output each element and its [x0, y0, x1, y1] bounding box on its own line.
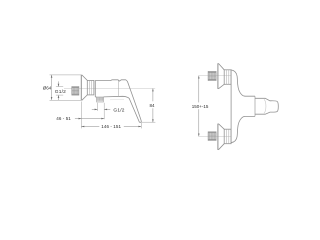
ext line handle tip down [140, 123, 142, 129]
ext line handle bottom right [140, 121, 156, 123]
svg-text:G1/2: G1/2 [113, 107, 124, 113]
ext line outlet left [97, 103, 99, 111]
top escutcheon cone [218, 63, 224, 88]
top wall thread (hatched) [208, 71, 216, 80]
ext ticks pipe thread [56, 86, 63, 88]
mixer body and lever handle outline [95, 80, 141, 123]
handle cylinder highlight arc [264, 99, 266, 113]
svg-text:G1/2: G1/2 [55, 89, 66, 95]
svg-text:84: 84 [150, 103, 156, 108]
top escutcheon face [217, 63, 219, 89]
dim 46-51 [75, 118, 104, 120]
escutcheon cone top [82, 75, 88, 81]
dim G1/2 outlet arrows [92, 108, 98, 110]
svg-text:150+-15: 150+-15 [192, 104, 209, 109]
bottom escutcheon face [217, 124, 219, 150]
body silhouette bottom S-curve [231, 116, 255, 142]
bottom wall thread (hatched) [208, 132, 216, 141]
dim 146-151 right segment [124, 126, 142, 128]
body/handle joint line [117, 80, 119, 96]
escutcheon flange face [80, 75, 82, 101]
body bottom shade line [110, 99, 124, 101]
body front face line [230, 70, 232, 143]
svg-text:146 - 151: 146 - 151 [101, 124, 121, 129]
wall connection thread (hatched) [72, 87, 79, 96]
dim G1/2 top arrow [58, 81, 60, 86]
top escutcheon neck [224, 70, 231, 85]
ext line wall face down [80, 102, 82, 129]
dim 84 [152, 89, 154, 102]
ext line flange top [50, 74, 82, 76]
escutcheon neck [87, 80, 94, 95]
dim G1/2 bottom arrow [58, 95, 60, 100]
centerline bottom union [199, 135, 231, 137]
centerline top union [199, 75, 231, 77]
dim Ø64 vertical line [51, 75, 53, 100]
bottom escutcheon cone [218, 124, 224, 150]
svg-text:46 - 51: 46 - 51 [56, 116, 71, 121]
body silhouette top S-curve [231, 70, 255, 96]
ext line outlet right [103, 103, 105, 119]
bottom escutcheon neck [224, 129, 231, 144]
escutcheon cone bottom [82, 95, 88, 100]
dim 146-151 left segment [81, 126, 99, 128]
shower outlet thread G1/2 (hatched) [97, 97, 104, 102]
handle base, neck and grip (end-on) [255, 98, 278, 114]
dim 150+-15 [198, 76, 200, 103]
centerline of wall union / valve axis [64, 88, 155, 90]
handle base joint [254, 96, 256, 116]
svg-text:Ø64: Ø64 [43, 86, 52, 91]
ext line flange bottom [50, 99, 82, 101]
